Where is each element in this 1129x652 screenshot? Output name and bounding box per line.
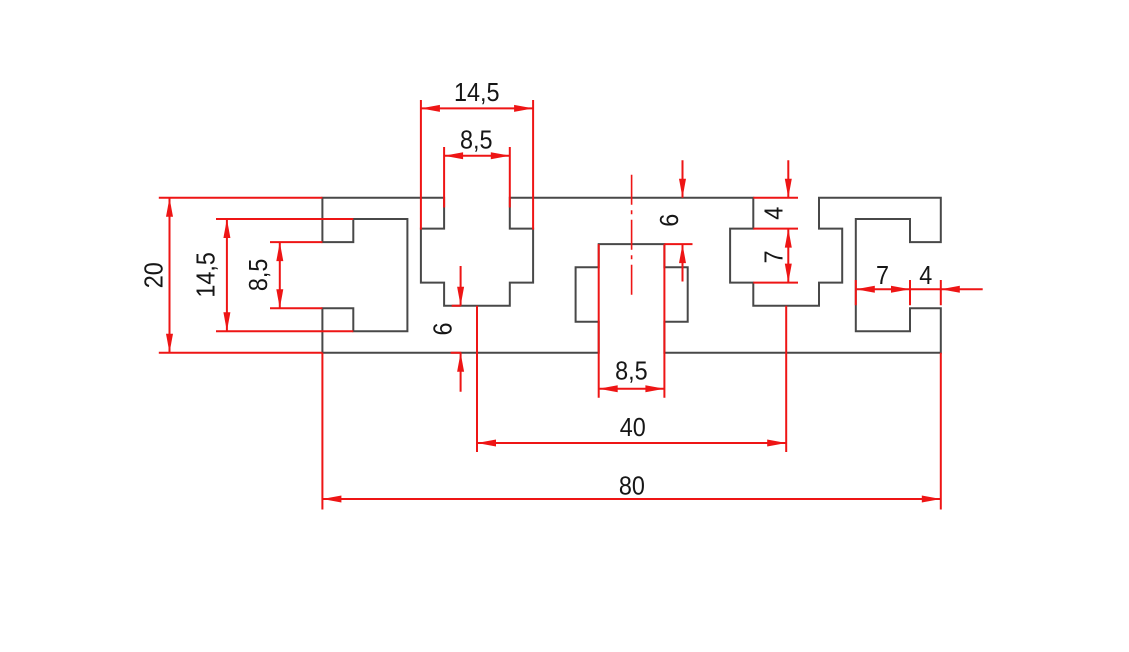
arrowheads dim 14,5 top <box>421 105 440 112</box>
arrowheads dim 8,5 bottom <box>599 385 618 392</box>
svg-text:7: 7 <box>760 250 788 263</box>
dim 4/7 middle-right: extension lines <box>753 198 798 283</box>
dim 40: dimension line <box>477 442 786 444</box>
arrowheads dim 6 middle <box>679 179 686 198</box>
dim 6 middle: dimension line segments <box>682 160 684 281</box>
svg-text:6: 6 <box>656 214 684 227</box>
arrowheads dim 20 left <box>166 198 173 217</box>
arrowheads dim 80 <box>322 496 341 503</box>
svg-text:20: 20 <box>140 262 168 288</box>
dim 4/7 middle-right: dimension line segments <box>787 160 789 282</box>
svg-text:8,5: 8,5 <box>615 357 648 385</box>
arrowheads dim 4/7 middle-right <box>785 179 792 198</box>
dim 8,5 top: dimension line <box>444 155 510 157</box>
dim 80: extension lines <box>322 353 940 510</box>
dim 6 middle: extension line <box>664 243 692 245</box>
dim 7/4 right: extension lines <box>856 280 941 305</box>
svg-text:14,5: 14,5 <box>454 79 500 107</box>
arrowheads dim 40 <box>477 440 496 447</box>
dim 20 left: extension lines <box>159 198 323 353</box>
svg-text:6: 6 <box>430 322 458 335</box>
dim 8,5 left: dimension line <box>279 242 281 308</box>
svg-text:4: 4 <box>919 262 932 290</box>
dim 14,5 left: extension lines <box>216 219 353 331</box>
dim 14,5 left: dimension line <box>226 219 228 331</box>
profile outline (80x20 extrusion cross-section) <box>322 198 940 353</box>
dim 14,5 top: extension lines <box>421 100 533 230</box>
dim 8,5 bottom: extension lines (overlay bottom slot walls) <box>599 244 665 398</box>
dim 7/4 right: dimension line <box>856 288 983 290</box>
dim 8,5 bottom: dimension line <box>599 388 665 390</box>
svg-text:80: 80 <box>619 472 645 500</box>
arrowheads dim 8,5 top <box>444 152 463 159</box>
svg-text:40: 40 <box>620 414 646 442</box>
arrowheads dim 14,5 left <box>223 219 230 238</box>
svg-text:8,5: 8,5 <box>245 259 273 292</box>
dim 6 bottom-left: dimension line segments <box>451 266 462 392</box>
svg-text:4: 4 <box>760 206 788 219</box>
arrowheads dim 8,5 left <box>276 242 283 261</box>
dim 80: dimension line <box>322 498 940 500</box>
dim 40: extension lines <box>477 306 786 452</box>
arrowheads dim 7/4 right <box>856 286 875 293</box>
centerline of bottom slot (dash-dot) <box>631 175 633 296</box>
arrowheads dim 6 bottom-left <box>457 287 464 306</box>
svg-text:7: 7 <box>876 262 889 290</box>
dim 20 left: dimension line <box>169 198 171 353</box>
dim 8,5 left: extension lines <box>270 242 322 308</box>
dim 8,5 top: extension lines <box>444 147 510 208</box>
svg-text:14,5: 14,5 <box>192 252 220 298</box>
svg-text:8,5: 8,5 <box>460 126 493 154</box>
dim 14,5 top: dimension line <box>421 107 533 109</box>
